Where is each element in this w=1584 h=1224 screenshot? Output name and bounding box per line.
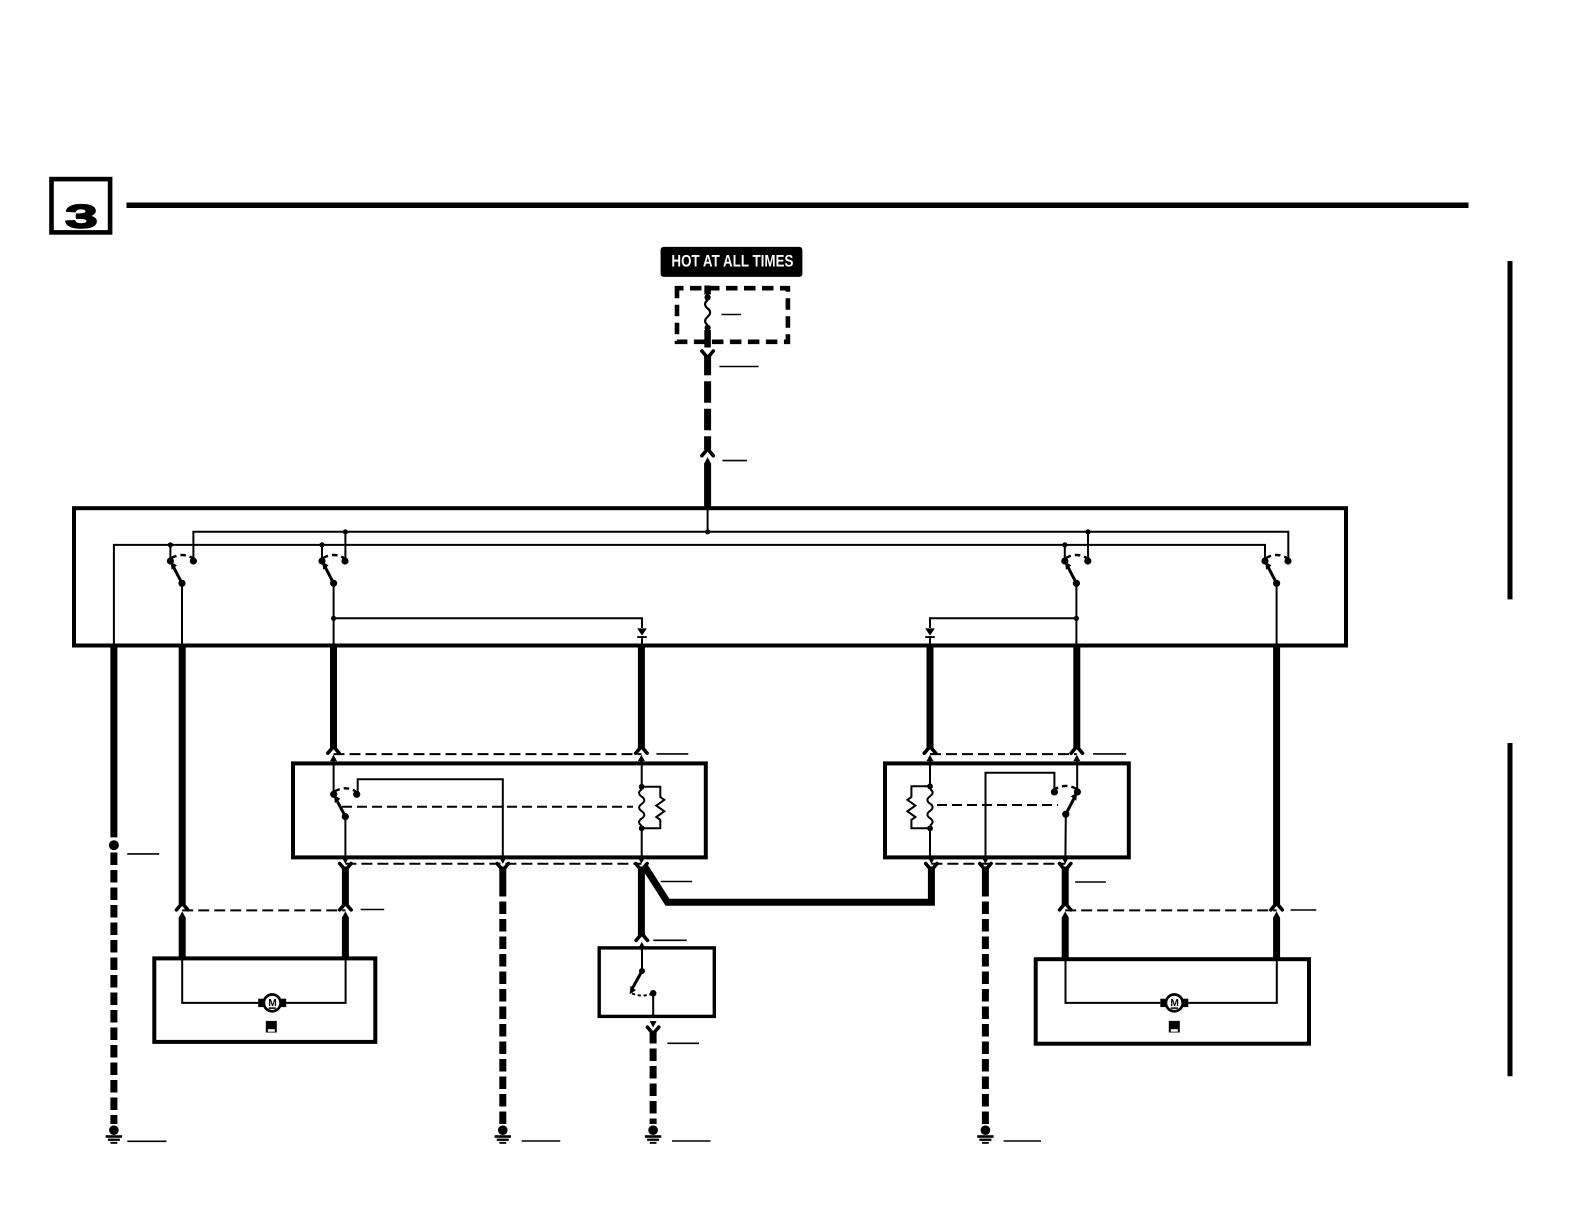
node: bus A junction with feed: [705, 529, 710, 534]
node: bus A tap S2: [343, 529, 348, 534]
ground G2: [495, 1125, 511, 1143]
cutoff switch box: [599, 948, 714, 1017]
right margin bar upper: [1508, 261, 1513, 599]
ground wire dashed: [110, 853, 117, 1125]
wire: bus A to S3 contact: [1087, 532, 1089, 558]
K2 exits: connector coil: [926, 858, 937, 869]
ground bus exit wire (left): [110, 644, 117, 837]
S1 output wire: [179, 644, 186, 904]
dashed connector link above K2: [930, 753, 1077, 755]
G3 label: [672, 1140, 711, 1142]
K1 coil feed stub: [641, 759, 643, 787]
K1 actuation dashed link: [342, 806, 633, 808]
diode D2: [925, 628, 935, 638]
K2 switch feed stub: [1076, 759, 1078, 790]
K1 exits: connector NC: [497, 858, 508, 869]
motor box left: [154, 958, 375, 1042]
K1 coil out wire: [641, 828, 643, 857]
wire into motor box: [1273, 917, 1280, 958]
K1 coil wire down: [638, 867, 645, 936]
dashed connector link above K1: [334, 753, 642, 755]
connector into relay K1 coil: [636, 748, 647, 764]
relay K2 box: [885, 763, 1129, 857]
switch S3: [1061, 555, 1091, 587]
G2 label: [522, 1140, 561, 1142]
connector into relay K2 coil: [924, 748, 935, 764]
motor M1: [258, 995, 286, 1012]
K2 exits: connector NC: [980, 858, 991, 869]
feed wire dashed: [704, 375, 711, 450]
feed wire into switch pack: [704, 464, 711, 510]
ground G1: [106, 1125, 122, 1143]
K2 coil: [907, 783, 932, 831]
S2 pole wire: [333, 583, 335, 645]
D2 cathode wire: [929, 638, 931, 645]
motor M2 wiring: [1066, 959, 1161, 1003]
D1 cathode wire: [641, 638, 643, 645]
dashed connector link below K2: [931, 863, 1065, 865]
connector below fuse: [702, 351, 713, 356]
link label: [361, 909, 385, 911]
S4 pole wire: [1276, 583, 1278, 645]
K1 coil: [639, 784, 665, 831]
S1 pole wire: [181, 583, 183, 645]
fuse F: [705, 286, 711, 348]
connector label: [722, 460, 747, 462]
diode D1: [637, 628, 647, 638]
node: bus A tap S3: [1085, 529, 1090, 534]
position icon M2: [1169, 1021, 1180, 1033]
G1 label: [127, 1140, 166, 1142]
feed wire label: [719, 366, 758, 368]
bus A (upper): [193, 532, 1288, 561]
cutoff switch S5: [630, 968, 657, 1017]
K1 switch: [330, 788, 360, 820]
dashed connector link below K1: [345, 863, 641, 865]
K1 exits: connector coil: [636, 858, 647, 869]
K1 exits: connector pole: [340, 858, 351, 869]
K1 NC ground wire: [499, 867, 506, 885]
G4 label: [1004, 1140, 1041, 1142]
link label: [1291, 909, 1317, 911]
dashed ground wire: [650, 1031, 657, 1124]
wire to diode D1: [334, 618, 642, 628]
K1 pole wire: [344, 817, 346, 858]
motor M2: [1160, 995, 1188, 1012]
S3 output wire: [1073, 644, 1080, 748]
switch feed stub: [641, 944, 643, 971]
fuse box (dashed): [677, 288, 788, 342]
feed wire solid: [704, 356, 711, 376]
K2 pole wire down: [1062, 867, 1069, 905]
link label: [656, 753, 688, 755]
K2 pole wire: [1064, 814, 1066, 857]
inline connector on feed: [702, 451, 713, 467]
K2 exits: connector pole: [1060, 858, 1071, 869]
switch S1: [167, 555, 197, 587]
K2 actuation dashed link: [937, 804, 1058, 806]
ground G4: [977, 1125, 993, 1143]
connector pair on S1 wire: [177, 905, 188, 921]
K2 switch (mirrored): [1051, 786, 1081, 818]
dashed link between motor wires (left): [182, 909, 345, 911]
node: bus B tap S3: [1062, 542, 1067, 547]
fuse label line: [721, 314, 741, 316]
relay K1 box: [293, 763, 706, 857]
connector pair on K2 pole wire: [1060, 905, 1071, 921]
dashed ground wire: [982, 884, 989, 1124]
header rule: [127, 202, 1469, 208]
K1 switch feed stub: [333, 759, 335, 792]
node: bus B tap S1: [168, 542, 173, 547]
K2 coil feed stub: [929, 759, 931, 787]
dashed ground wire: [499, 884, 506, 1124]
splice dot: [109, 840, 119, 850]
S2 output wire: [330, 644, 337, 748]
switch S2: [318, 555, 348, 587]
wire into motor box: [1062, 917, 1069, 958]
node: bus B tap S2: [319, 542, 324, 547]
bus B (lower): [114, 545, 1265, 646]
connector label: [653, 939, 686, 941]
S4 output wire: [1273, 644, 1280, 904]
wire: bus B to S3 contact: [1064, 545, 1066, 558]
node: S2 pole tap: [331, 616, 336, 621]
K2 coil out wire: [929, 828, 931, 857]
K1 NC contact riser: [358, 779, 503, 857]
switch S4: [1261, 555, 1291, 587]
motor box right: [1036, 959, 1309, 1043]
link label: [1093, 753, 1126, 755]
connector into relay K1: [328, 748, 339, 764]
connector into switch box: [636, 935, 647, 951]
connector label: [667, 1042, 699, 1044]
D1 output wire: [638, 644, 645, 748]
connector pair on S4 wire: [1271, 905, 1282, 921]
K1 exit label: [661, 881, 693, 883]
wire: bus A to S2 contact: [344, 532, 346, 558]
HOT AT ALL TIMES banner: [661, 247, 803, 277]
motor M1 wiring: [182, 958, 258, 1003]
K2 exit label: [1075, 881, 1106, 883]
interconnect to K2 coil (thick): [645, 867, 931, 903]
splice label: [127, 853, 159, 855]
connector pair on K1 pole wire: [340, 905, 351, 921]
D2 output wire: [927, 644, 934, 748]
K2 NC contact riser: [986, 773, 1055, 858]
connector into relay K2: [1071, 748, 1082, 764]
right margin bar lower: [1508, 743, 1513, 1076]
feed stub inside pack: [707, 508, 709, 532]
position icon M1: [266, 1021, 277, 1033]
wire into motor box: [342, 917, 349, 957]
S3 pole wire: [1075, 583, 1077, 645]
wire: bus B to S2 contact: [321, 545, 323, 558]
K1 pole wire down: [342, 867, 349, 905]
node: S3 pole tap: [1074, 616, 1079, 621]
dashed link between motor wires (right): [1065, 909, 1276, 911]
exit connector below switch box: [647, 1021, 658, 1032]
wire into motor box: [179, 917, 186, 957]
wire to diode D2: [930, 618, 1076, 628]
wire: bus B to S1 contact: [169, 545, 171, 558]
ground G3: [645, 1125, 661, 1143]
K2 NC ground wire: [982, 867, 989, 885]
page number box "3": [52, 179, 111, 232]
window switch pack box: [74, 508, 1346, 645]
